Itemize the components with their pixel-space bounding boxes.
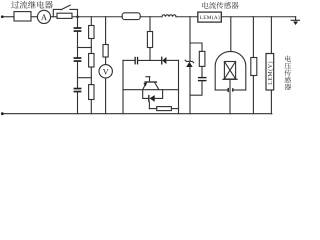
label LEM(V) rotated bbox=[268, 62, 273, 85]
wire emitter row bbox=[123, 89, 179, 91]
wire rung 2 bbox=[78, 77, 92, 79]
chopper block left rail bbox=[122, 60, 124, 113]
wire bbox=[31, 16, 37, 18]
resistor R7 gate feed from bus bbox=[149, 17, 151, 32]
wire bbox=[51, 16, 57, 18]
wire top bus bbox=[72, 16, 122, 18]
diode D1 top row bbox=[161, 57, 162, 65]
relay K1 overcurrent relay box bbox=[14, 12, 31, 21]
resistor R10 bleeder right bbox=[252, 17, 254, 58]
load M1 cathode lead bbox=[229, 79, 231, 113]
load M1 magnetron dome bbox=[230, 17, 232, 52]
label ammeter A bbox=[41, 14, 47, 20]
wire bbox=[176, 16, 198, 18]
ground bbox=[295, 17, 297, 21]
load M1 left heater plate bbox=[215, 89, 227, 91]
wire top bus right bbox=[221, 16, 295, 18]
node return terminal bottom-left bbox=[1, 112, 4, 115]
wire bbox=[3, 16, 14, 18]
diode D2 freewheel loop bbox=[143, 90, 149, 99]
node input terminal top-left bbox=[1, 15, 4, 18]
wire bottom bus bbox=[2, 113, 272, 115]
capacitor C4 snubber bbox=[135, 57, 136, 65]
zener diode VD1 clamp column bbox=[189, 17, 191, 61]
load M1 right heater plate bbox=[233, 89, 245, 91]
wire bbox=[140, 16, 162, 18]
label overcurrent relay 过流继电器 bbox=[11, 1, 19, 9]
load M1 crossed box bbox=[224, 62, 235, 80]
switch S1 bypass bbox=[53, 9, 61, 16]
capacitor C5 bbox=[198, 77, 207, 78]
ammeter PA1 bbox=[37, 10, 50, 23]
voltmeter PV1 bbox=[105, 57, 107, 65]
resistor R2 series top bus bbox=[122, 13, 140, 20]
label LEM(A) bbox=[200, 15, 220, 20]
label voltage sensor 电压传感器 vertical bbox=[285, 56, 291, 62]
current sensor U1 LEM(A) box bbox=[198, 12, 222, 22]
label voltmeter V bbox=[103, 69, 109, 74]
node junction A bbox=[76, 15, 79, 18]
wire block top row bbox=[123, 59, 135, 61]
wire RC branch top bbox=[190, 43, 202, 51]
voltage sensor U2 LEM(V) box bbox=[270, 17, 272, 54]
chopper block right rail bbox=[178, 60, 180, 113]
resistor R9 bbox=[199, 51, 205, 66]
resistor R8 snubber bottom row bbox=[148, 102, 150, 109]
resistor ladder R3 R4 R5 column bbox=[90, 17, 92, 26]
wire RC branch bottom bbox=[190, 81, 202, 95]
wire rung 1 bbox=[78, 47, 92, 49]
resistor R6 voltmeter series bbox=[105, 17, 107, 45]
label current sensor 电流传感器 bbox=[202, 2, 208, 9]
resistor R1 precharge bbox=[57, 13, 72, 18]
capacitor ladder C1 C2 C3 column bbox=[77, 17, 79, 28]
inductor L1 bbox=[162, 15, 176, 17]
transistor Q1 IGBT bbox=[146, 76, 150, 78]
